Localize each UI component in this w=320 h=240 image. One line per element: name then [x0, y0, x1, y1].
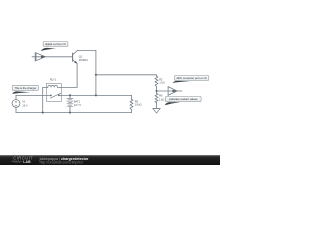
- annotation bubble: ADC converter port on IC: [173, 76, 209, 83]
- svg-text:This is the charger: This is the charger: [14, 86, 36, 90]
- svg-text:10.7 V: 10.7 V: [74, 103, 81, 107]
- resistor R5: [130, 95, 133, 109]
- relay RLY1 coil: [46, 85, 61, 87]
- svg-text:digital out from IC: digital out from IC: [45, 42, 66, 46]
- annotation bubble: digital out from IC: [41, 42, 68, 52]
- voltage source V1: [12, 95, 20, 112]
- junction node: collector/divider tap: [95, 74, 97, 76]
- junction node: battery top: [69, 94, 71, 96]
- wire: Q1 collector to battery+ node: [77, 50, 96, 95]
- junction node: coil return at bus: [42, 112, 44, 114]
- svg-text:16 V: 16 V: [22, 103, 27, 107]
- svg-text:RLY1: RLY1: [50, 77, 57, 81]
- svg-text:LAB: LAB: [23, 160, 31, 164]
- junction node: battery bottom: [69, 112, 71, 114]
- wire: Q1 emitter to relay coil: [61, 63, 77, 87]
- svg-text:calculate resistor values: calculate resistor values: [169, 97, 198, 101]
- junction node: collector at rail: [95, 94, 97, 96]
- battery BAT1: [67, 95, 73, 112]
- svg-text:1 kΩ: 1 kΩ: [159, 98, 164, 102]
- wire: main charger rail y=95: [16, 94, 46, 96]
- svg-text:http://circuitlab.com/c6hp2k3: http://circuitlab.com/c6hp2k3: [40, 161, 83, 165]
- relay RLY1 box: [46, 83, 61, 101]
- wire: terminal to Q1 base: [45, 56, 72, 58]
- svg-text:2N3904: 2N3904: [79, 58, 88, 62]
- svg-text:1 kΩ: 1 kΩ: [159, 81, 164, 85]
- footer bar: [0, 155, 220, 165]
- svg-text:ADC converter port on IC: ADC converter port on IC: [176, 76, 206, 80]
- input terminal IN1 stub wire: [32, 56, 45, 58]
- svg-text:10 kΩ: 10 kΩ: [135, 103, 142, 107]
- wire: relay coil return to bottom bus: [42, 87, 44, 112]
- wire: divider feed: [96, 75, 157, 77]
- resistor R2: [155, 76, 158, 93]
- wire: divider node to output terminal: [157, 90, 183, 92]
- annotation bubble: calculate resistor values: [165, 96, 201, 105]
- ground: [153, 109, 160, 114]
- relay RLY1 switch: [46, 93, 61, 98]
- resistor R6: [155, 93, 158, 108]
- wire: bottom bus: [16, 110, 132, 113]
- annotation bubble: This is the charger: [12, 85, 38, 94]
- junction node: divider mid: [155, 90, 157, 92]
- output terminal OUT1: [168, 87, 177, 96]
- transistor Q1: [73, 51, 78, 64]
- CircuitLab logo wordmark: [12, 156, 34, 164]
- input terminal IN1: [35, 53, 45, 61]
